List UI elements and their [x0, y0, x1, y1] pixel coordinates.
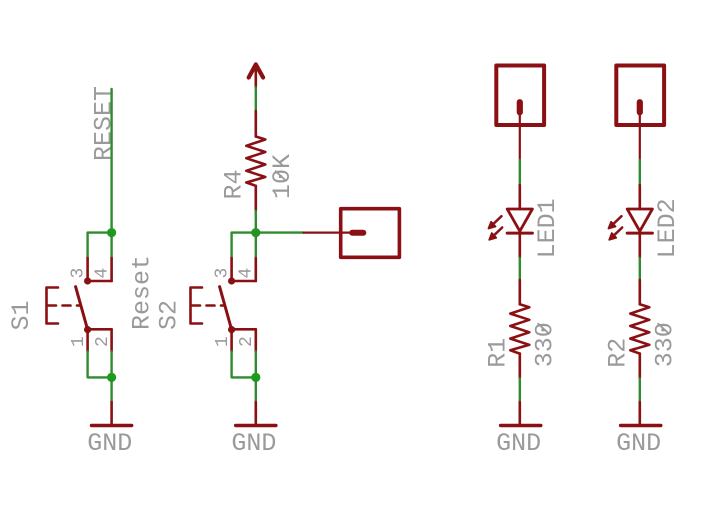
wire R2 to GND	[639, 378, 641, 402]
pin number 4 (S1)	[93, 268, 113, 279]
LED LED1	[489, 185, 533, 258]
wire junction to pad J1	[256, 231, 304, 233]
pin number 3 (S2)	[213, 268, 233, 279]
svg-text:3: 3	[69, 268, 89, 279]
wire S2 bottom right branch	[255, 352, 257, 378]
pin number 2 (S1)	[93, 336, 113, 347]
pad J3 pill	[637, 99, 643, 115]
label R1	[484, 338, 513, 368]
node junction S2 bottom	[251, 373, 260, 382]
label GND (S1)	[87, 429, 132, 458]
svg-text:GND: GND	[231, 429, 276, 458]
wire S1 to GND	[110, 377, 112, 402]
LED LED2	[609, 185, 653, 258]
resistor R4 10K	[246, 111, 265, 211]
resistor R2 330	[630, 280, 649, 378]
label GND (R1)	[496, 429, 541, 458]
switch S2	[191, 258, 256, 352]
svg-text:RESET: RESET	[90, 86, 119, 161]
pin number 2 (S2)	[237, 336, 257, 347]
svg-text:4: 4	[237, 268, 257, 279]
svg-text:R1: R1	[484, 338, 513, 368]
svg-text:LED1: LED1	[533, 198, 562, 258]
pad J2 pill	[517, 99, 523, 115]
svg-text:LED2: LED2	[653, 198, 682, 258]
svg-text:R4: R4	[220, 169, 249, 199]
pad J3 box	[616, 66, 664, 126]
wire S2 top right branch	[255, 233, 257, 258]
pin number 4 (S2)	[237, 268, 257, 279]
svg-text:2: 2	[93, 336, 113, 347]
wire S1 top right branch	[110, 233, 112, 258]
wire S1 top left branch	[88, 233, 112, 258]
label 330 (R1)	[531, 322, 560, 367]
svg-text:1: 1	[213, 336, 233, 347]
label LED1	[533, 198, 562, 258]
svg-text:R2: R2	[604, 338, 633, 368]
pin number 3 (S1)	[69, 268, 89, 279]
wire VCC to R4	[255, 88, 257, 112]
wire LED1 to R1	[519, 258, 521, 280]
label GND (S2)	[231, 429, 276, 458]
svg-text:S1: S1	[7, 300, 36, 330]
ground GND (S1)	[92, 402, 132, 426]
ground GND (R2)	[621, 402, 661, 426]
svg-text:1: 1	[69, 336, 89, 347]
label net RESET	[90, 86, 119, 161]
pad J2 pin wire	[519, 112, 521, 160]
svg-text:4: 4	[93, 268, 113, 279]
svg-text:GND: GND	[87, 429, 132, 458]
pad J1 pin wire	[304, 232, 358, 234]
pad J1 pill	[349, 230, 366, 236]
wire S2 bottom left branch	[232, 352, 256, 378]
label 330 (R2)	[651, 322, 680, 367]
label S2	[155, 300, 184, 330]
label S1	[7, 300, 36, 330]
label R4	[220, 169, 249, 199]
svg-text:Reset: Reset	[128, 255, 157, 330]
pad J2 box	[496, 66, 544, 126]
label Reset	[128, 255, 157, 330]
wire S2 top left branch	[232, 233, 256, 258]
wire RESET net vertical	[110, 89, 112, 233]
wire J2 to LED1	[519, 160, 521, 185]
svg-text:3: 3	[213, 268, 233, 279]
label R2	[604, 338, 633, 368]
pad J1 box	[341, 209, 400, 258]
pin number 1 (S2)	[213, 336, 233, 347]
label 10K	[268, 154, 297, 199]
power VCC arrow	[249, 64, 263, 87]
svg-text:GND: GND	[616, 429, 661, 458]
wire S1 bottom left branch	[88, 352, 112, 378]
wire S2 to GND	[255, 377, 257, 402]
ground GND (S2)	[236, 402, 276, 426]
label LED2	[653, 198, 682, 258]
wire R1 to GND	[519, 378, 521, 402]
label GND (R2)	[616, 429, 661, 458]
wire R4 to junction	[255, 211, 257, 233]
node junction S2 top	[251, 228, 260, 237]
wire LED2 to R2	[639, 258, 641, 280]
svg-text:GND: GND	[496, 429, 541, 458]
wire J3 to LED2	[639, 160, 641, 185]
node junction S1 top	[107, 228, 116, 237]
pin number 1 (S1)	[69, 336, 89, 347]
svg-text:2: 2	[237, 336, 257, 347]
node junction S1 bottom	[107, 373, 116, 382]
wire S1 bottom right branch	[110, 352, 112, 378]
ground GND (R1)	[501, 402, 541, 426]
pad J3 pin wire	[639, 112, 641, 160]
svg-text:S2: S2	[155, 300, 184, 330]
switch S1	[47, 258, 112, 352]
resistor R1 330	[510, 280, 529, 378]
